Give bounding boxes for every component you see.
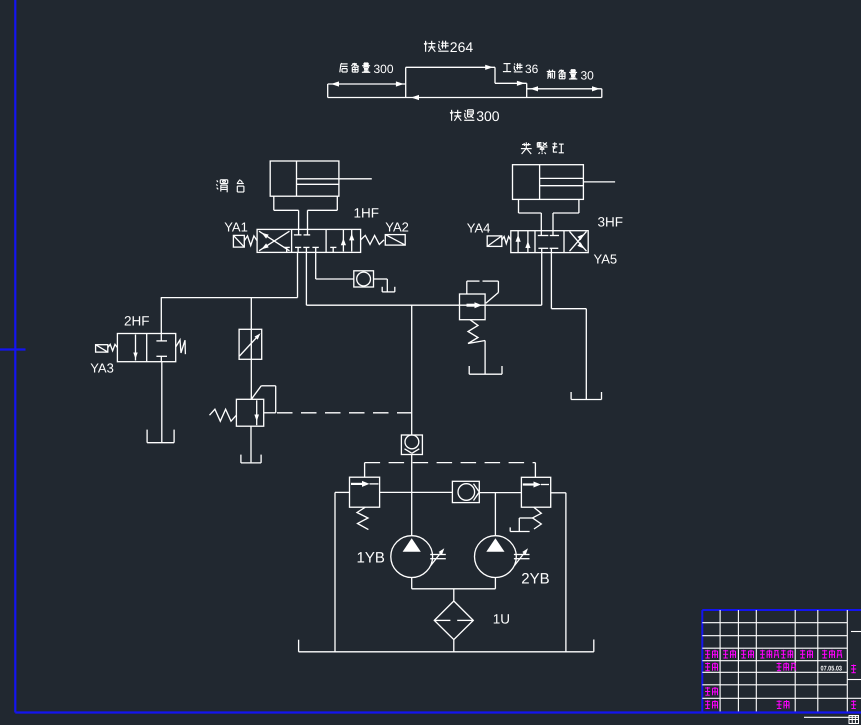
wire check valve to tank xyxy=(374,279,388,292)
check valve main xyxy=(401,435,422,455)
wire 3HF P-port down xyxy=(541,253,543,306)
solenoid YA4 box xyxy=(487,236,502,247)
spring sequence valve xyxy=(468,320,485,344)
sequence valve internal arrow xyxy=(467,302,483,308)
valve 1HF centre bottom blocked port P xyxy=(295,247,301,252)
cylinder clamp mount bracket xyxy=(519,199,579,213)
unloading valve right body xyxy=(521,477,550,507)
arrow work-feed right xyxy=(517,81,525,86)
pump 2YB triangle xyxy=(486,538,504,551)
valve 1HF centre bottom blocked port mid xyxy=(303,247,309,252)
label 滑台 xyxy=(216,180,244,193)
cylinder slide-table rod top line xyxy=(297,178,372,180)
wire 2HF bottom port xyxy=(161,362,163,442)
wire cycle work-feed line xyxy=(495,82,527,84)
arrow fast-forward right xyxy=(485,65,493,70)
wire relief valve drain xyxy=(250,426,252,462)
label YA3 xyxy=(90,361,114,376)
title block date xyxy=(821,665,843,672)
tank symbol 3HF drain xyxy=(571,392,601,400)
valve 1HF centre top blocked ports xyxy=(294,234,310,236)
valve 2HF left box flow arrow xyxy=(133,335,137,361)
tank symbol relief valve xyxy=(241,455,261,463)
arrow rear-reserve right xyxy=(396,81,404,86)
valve 3HF right box crossed arrows xyxy=(570,231,587,251)
title block lower-right box xyxy=(849,716,859,724)
pump 1YB variable symbol xyxy=(430,548,446,565)
pump 1YB circle xyxy=(391,536,433,578)
tank symbol near 1HF xyxy=(382,287,395,292)
throttle valve through line xyxy=(250,329,252,359)
wire pump1 outlet xyxy=(411,578,413,589)
wire cylinder B port xyxy=(307,210,309,235)
border frame centre tick xyxy=(0,348,26,350)
valve 1HF right box bottom stub xyxy=(330,247,336,252)
pump 2YB variable symbol xyxy=(514,548,530,565)
spring relief valve left xyxy=(210,409,237,421)
spring unloading valve right xyxy=(533,507,542,529)
wire left valve outlet to manifold xyxy=(380,491,453,493)
valve 1HF body xyxy=(257,229,361,252)
sequence valve pilot loop xyxy=(467,281,499,303)
tank main right wall xyxy=(593,640,595,652)
wire 1HF T-port down xyxy=(315,252,317,279)
cylinder clamp rod extension xyxy=(583,181,615,183)
relief valve pilot loop xyxy=(251,386,275,413)
spring 3HF left solenoid link xyxy=(502,237,511,244)
wire left outer drain xyxy=(334,492,336,651)
title block grid xyxy=(702,610,861,713)
wire main vertical lower xyxy=(411,455,413,536)
pump 2YB circle xyxy=(475,536,517,578)
svg-text:30: 30 xyxy=(581,69,595,83)
wire cycle drop after work-feed xyxy=(526,83,528,97)
svg-text:YA4: YA4 xyxy=(467,221,491,236)
wire pump2 inlet xyxy=(494,493,496,536)
wire cycle bottom fast-return line xyxy=(328,97,602,99)
spring 1HF right xyxy=(361,235,384,244)
label 快退300 xyxy=(450,108,500,124)
cylinder slide-table body xyxy=(270,161,339,196)
wire 3HF T-port down xyxy=(550,253,552,309)
spring 1HF left solenoid link xyxy=(244,236,257,246)
title block lower-right line xyxy=(804,716,858,718)
svg-text:36: 36 xyxy=(525,62,539,76)
label YA2 xyxy=(385,220,409,235)
label 夹紧缸 xyxy=(521,142,564,154)
title block captions xyxy=(705,650,856,709)
label 2HF xyxy=(124,314,150,329)
wire right outer drain xyxy=(565,493,567,652)
label 工进36 xyxy=(503,62,539,76)
svg-text:YA5: YA5 xyxy=(594,252,618,267)
sequence valve body xyxy=(460,294,486,320)
tank symbol sequence valve xyxy=(469,366,502,374)
valve 2HF right box blocked ports xyxy=(156,334,167,362)
unloading valve right pilot drain xyxy=(510,518,532,532)
svg-text:07.05.03: 07.05.03 xyxy=(821,665,843,672)
wire 1HF A-port down xyxy=(297,252,299,297)
wire cycle left end vertical xyxy=(327,84,329,98)
wire cycle rear-reserve line xyxy=(328,83,406,85)
svg-text:3HF: 3HF xyxy=(598,215,624,230)
svg-text:1HF: 1HF xyxy=(354,206,380,221)
label 2YB xyxy=(521,571,549,588)
label 1YB xyxy=(357,549,385,566)
wire right pilot drop xyxy=(534,463,536,478)
filter 1U diamond xyxy=(434,601,473,640)
label YA1 xyxy=(224,220,248,235)
wire main vertical upper xyxy=(411,305,413,435)
wire branch line to 2HF xyxy=(161,297,298,299)
wire 2HF top port xyxy=(160,298,162,334)
label 1HF xyxy=(354,206,380,221)
cylinder clamp body xyxy=(513,165,584,200)
unloading valve left arrow xyxy=(351,481,379,487)
label 前备量30 xyxy=(547,69,594,83)
svg-text:YA1: YA1 xyxy=(224,220,248,235)
wire main pressure line xyxy=(306,304,541,306)
spring 2HF right xyxy=(176,340,186,354)
valve 1HF centre bottom blocked port T xyxy=(312,247,318,252)
tank main left wall xyxy=(298,640,300,652)
cylinder slide-table mount bracket xyxy=(274,196,338,210)
valve 2HF body xyxy=(117,334,175,362)
throttle valve diagonal arrow xyxy=(240,333,261,356)
valve 1HF left box crossed arrows xyxy=(259,231,290,251)
wire throttle top xyxy=(250,298,252,330)
wire check to right valve xyxy=(479,492,521,494)
pump 1YB triangle xyxy=(403,538,421,551)
spring unloading valve left xyxy=(357,507,368,529)
cylinder clamp piston xyxy=(539,165,541,200)
svg-text:2HF: 2HF xyxy=(124,314,150,329)
wire 1HF P-port down xyxy=(305,252,307,305)
check valve between pumps xyxy=(452,481,479,502)
valve 3HF centre top blocked ports xyxy=(538,235,559,237)
valve 1HF left box bottom stub xyxy=(284,247,290,252)
svg-text:264: 264 xyxy=(450,39,474,55)
cylinder slide-table piston xyxy=(296,161,298,196)
tank symbol 2HF xyxy=(147,430,174,443)
throttle valve body xyxy=(239,329,262,359)
svg-text:1YB: 1YB xyxy=(357,549,385,566)
wire sequence valve drain xyxy=(484,341,486,375)
arrow fast-return left xyxy=(411,95,419,100)
wire manifold to filter xyxy=(453,589,455,601)
svg-text:300: 300 xyxy=(476,108,500,124)
solenoid YA3 box xyxy=(96,345,108,352)
wire throttle to relief valve xyxy=(250,359,252,399)
arrow front-reserve left xyxy=(530,86,538,91)
valve 3HF left box flow arrows xyxy=(516,231,531,253)
label YA5 xyxy=(594,252,618,267)
valve 1HF right box flow arrows xyxy=(341,230,355,252)
label YA4 xyxy=(467,221,491,236)
filter 1U element dashes xyxy=(435,619,473,621)
wire T to check valve xyxy=(316,278,354,280)
wire cycle riser at fast-forward start xyxy=(405,67,407,97)
svg-text:YA2: YA2 xyxy=(385,220,409,235)
wire cycle right end vertical xyxy=(601,89,603,98)
wire cycle fast-forward top line xyxy=(406,66,495,68)
label 后备量300 xyxy=(340,62,394,76)
label 1U xyxy=(493,612,510,627)
wire pump2 outlet xyxy=(494,578,496,589)
relief valve body xyxy=(236,399,263,426)
svg-text:300: 300 xyxy=(374,62,394,76)
wire remote pilot dashed xyxy=(277,412,412,414)
check valve 1HF backpressure xyxy=(354,271,374,287)
cylinder clamp rod top line xyxy=(540,177,584,179)
border frame bottom blue line xyxy=(15,711,861,713)
wire cylinder A port xyxy=(298,210,300,235)
valve 3HF centre bottom blocked ports xyxy=(538,248,558,252)
wire unload pilot dashed xyxy=(365,462,536,464)
svg-text:YA3: YA3 xyxy=(90,361,114,376)
solenoid YA2 box xyxy=(385,235,405,246)
wire clamp B port xyxy=(552,213,554,235)
wire right valve outlet xyxy=(551,492,566,494)
relief valve internal arrow xyxy=(254,400,259,425)
wire left pilot drop xyxy=(364,463,366,478)
valve 3HF body xyxy=(511,231,588,253)
label 快进264 xyxy=(424,39,473,55)
cylinder slide-table rod bottom line xyxy=(297,183,339,185)
wire cycle front-reserve line xyxy=(527,88,602,90)
wire cycle drop after fast-forward xyxy=(494,67,496,83)
arrow front-reserve right xyxy=(592,86,600,91)
label 3HF xyxy=(598,215,624,230)
wire filter to tank xyxy=(453,640,455,652)
unloading valve left body xyxy=(350,477,380,507)
cylinder clamp rod bottom line xyxy=(540,185,584,187)
wire pump manifold xyxy=(412,588,496,590)
wire 3HF T to drain xyxy=(551,309,586,399)
svg-text:1U: 1U xyxy=(493,612,510,627)
wire left valve inlet xyxy=(335,491,350,493)
spring 2HF solenoid link xyxy=(108,344,118,350)
unloading valve right arrow xyxy=(523,482,549,488)
tank main suction line xyxy=(299,651,594,653)
arrow rear-reserve left xyxy=(331,81,339,86)
svg-text:2YB: 2YB xyxy=(521,571,549,588)
border frame left blue line xyxy=(14,0,16,713)
wire clamp A port xyxy=(540,213,542,235)
solenoid YA1 box xyxy=(233,235,244,247)
